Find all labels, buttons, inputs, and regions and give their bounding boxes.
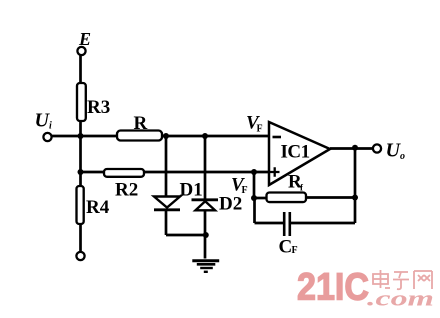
- svg-text:F: F: [292, 245, 298, 256]
- svg-text:21IC: 21IC: [297, 267, 369, 309]
- svg-text:E: E: [78, 29, 91, 49]
- svg-text:D2: D2: [219, 194, 242, 215]
- svg-text:IC1: IC1: [281, 142, 310, 163]
- svg-text:R3: R3: [87, 97, 110, 118]
- svg-text:D1: D1: [180, 180, 203, 201]
- svg-text:R2: R2: [115, 180, 138, 201]
- svg-text:R: R: [134, 113, 148, 134]
- svg-text:F: F: [242, 185, 248, 196]
- svg-text:R4: R4: [86, 197, 110, 218]
- svg-text:F: F: [257, 124, 263, 135]
- svg-text:C: C: [279, 237, 293, 258]
